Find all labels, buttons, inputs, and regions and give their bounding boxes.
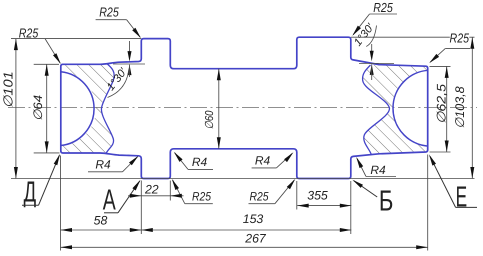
svg-text:Б: Б bbox=[379, 186, 394, 218]
svg-text:22: 22 bbox=[144, 183, 159, 197]
svg-text:R4: R4 bbox=[370, 163, 386, 177]
svg-text:R4: R4 bbox=[255, 154, 271, 168]
svg-text:∅101: ∅101 bbox=[0, 71, 15, 108]
svg-text:R25: R25 bbox=[19, 26, 39, 41]
svg-text:58: 58 bbox=[94, 214, 108, 228]
svg-text:∅60: ∅60 bbox=[204, 110, 216, 130]
svg-text:∅62,5: ∅62,5 bbox=[435, 84, 449, 124]
svg-text:267: 267 bbox=[244, 231, 267, 245]
svg-text:R25: R25 bbox=[99, 5, 119, 20]
svg-text:R25: R25 bbox=[192, 189, 211, 203]
svg-text:355: 355 bbox=[307, 188, 328, 202]
svg-text:R25: R25 bbox=[450, 30, 470, 45]
svg-text:R25: R25 bbox=[250, 189, 269, 203]
svg-text:R4: R4 bbox=[95, 158, 111, 172]
svg-text:Д: Д bbox=[24, 176, 37, 208]
svg-text:Е: Е bbox=[456, 182, 468, 214]
svg-text:R25: R25 bbox=[373, 0, 393, 15]
svg-text:∅103,8: ∅103,8 bbox=[453, 86, 467, 128]
svg-text:∅64: ∅64 bbox=[31, 95, 45, 121]
svg-text:R4: R4 bbox=[192, 155, 208, 169]
svg-text:153: 153 bbox=[243, 212, 264, 226]
svg-text:А: А bbox=[103, 184, 116, 216]
